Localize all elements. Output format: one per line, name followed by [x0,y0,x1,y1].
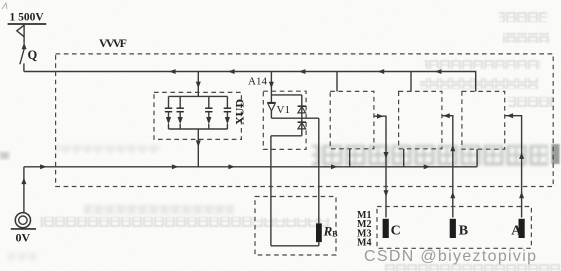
motor B wire to inverter 2 [442,116,453,218]
paper noise overlay [0,0,1,1]
rectifier leg 1 diode triangle [166,117,171,124]
bus arrow 3 [299,69,306,74]
rectifier top rail [169,95,228,97]
motor C terminal [383,219,389,238]
arrow left into inverter 3 [507,113,514,118]
bleed-through heading row (mirrored chapter title) [312,145,548,167]
rectifier leg 1 capacitor bars [165,108,172,112]
pantograph symbol [17,25,24,36]
arrow up on motor A wire upper [519,152,524,159]
motor group dashed box [377,207,531,249]
arrow up on 0V wire [21,178,26,185]
bleed-through text row right mid [508,97,554,107]
return arrow 5 [424,164,431,169]
switch Q arrowhead [22,43,27,50]
bleed-through text row below bus [420,78,538,89]
return arrow 1 [40,164,47,169]
return line stub inverter 2 [403,149,405,167]
arrow left into inverter 2 [443,113,450,118]
arrow down on rectifier feed [196,82,201,89]
arrow right on inverter 1 output [377,114,384,119]
wire below V1 [270,111,272,118]
rectifier leg 4 capacitor bars [224,108,231,112]
rectifier XUD dashed box [154,92,241,139]
scan speck top-left corner [2,3,7,9]
rectifier leg 1 wire [168,96,170,129]
bleed-through text row above brake box [84,205,234,214]
bus arrow 1 [169,69,176,74]
chopper V1 dashed box [263,91,306,149]
bleed-through text row bottom edge [384,263,560,271]
catenary line [8,23,47,25]
diode D1 (bar + up triangle) [298,106,306,113]
chopper top horizontal wire [271,94,301,96]
rectifier leg 2 capacitor bars [177,108,184,112]
wire RB drop vertical [318,118,320,223]
wire rectifier bottom to return line [197,129,199,167]
wheel-on-rail symbol [11,213,36,229]
inverter 1 output wire to motor C [374,116,386,217]
wire RB bottom [318,242,320,246]
diode chain vertical wire [301,95,303,136]
wire from catenary down [23,24,25,44]
arrow down on motor C wire lower [384,190,389,197]
bus arrow 5 [435,69,442,74]
wire 0V rail up to return line [23,167,25,213]
return arrow 2 [172,164,179,169]
rectifier leg 4 wire [226,96,228,129]
bus arrow 4 [378,69,385,74]
bleed-through text row mid bottom [40,217,254,228]
return arrow 4 [331,164,338,169]
rectifier leg 2 wire [179,96,181,129]
bleed-through text row above bus [424,59,540,69]
motor B terminal [450,219,456,238]
bleed-through small mark bottom left [8,253,38,261]
bus arrow 2 [228,69,235,74]
bleed-through text row inside brake box [256,218,330,228]
chopper bottom horizontal wire [271,135,302,137]
rectifier bottom rail [169,128,228,130]
GTO V1 symbol (bar + down triangle) [267,103,275,111]
arrow down on chopper feed [269,82,274,89]
bleed-through text row top-right 2 [503,33,549,43]
switch Q blade [20,49,24,64]
inverter module 2 dashed box [399,91,442,148]
bleed-through heading dark block [552,144,560,164]
motor A wire to inverter 3 [505,116,522,218]
DC bus top horizontal wire [24,72,476,92]
rectifier leg 2 diode triangle [178,117,183,124]
wire bus to chopper [270,72,272,103]
return line stub inverter 3 [476,149,478,167]
wire from switch to bus corner [23,63,25,71]
rectifier leg 4 diode triangle [225,117,230,124]
rectifier leg 3 wire [208,96,210,129]
arrow up on motor B wire upper [450,145,455,152]
wire chopper down to brake loop [270,136,272,246]
bus stub to inverter 1 [336,72,338,92]
brake resistor RB body [316,223,322,242]
return line bottom horizontal wire [24,166,477,168]
arrow up on motor B wire lower [450,192,455,199]
chopper mid horizontal wire to RB drop [271,117,318,119]
rectifier leg 3 capacitor bars [205,108,212,112]
brake resistor dashed box [255,197,336,256]
diode D2 (bar + up triangle) [298,122,306,129]
return line stub inverter 1 [349,149,351,167]
VVVF converter outline dashed box [56,54,554,187]
motor A terminal [519,219,525,238]
inverter module 1 dashed box [330,91,374,148]
inverter module 3 dashed box [462,91,505,149]
arrow down on rectifier bottom wire [196,140,201,147]
rectifier leg 3 diode triangle [206,117,211,124]
return arrow 3 [228,164,235,169]
wire bus to rectifier [197,72,199,97]
arrow up on motor A wire lower [519,192,524,199]
brake loop bottom wire [271,245,319,247]
bleed-through faint row left of center [56,145,160,153]
scan smudge left edge [0,152,9,159]
bleed-through text row top-right 1 [499,12,547,22]
bus stub to inverter 2 [410,72,412,92]
arrow down on motor C wire upper [384,152,389,159]
